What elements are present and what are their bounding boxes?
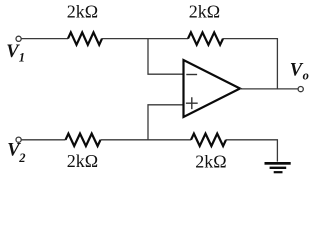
resistor R1 (2k ohm, top left) xyxy=(68,32,102,44)
op-amp inverting input minus sign xyxy=(186,74,197,76)
svg-text:2: 2 xyxy=(18,151,25,165)
resistor R3 (2k ohm, bottom left) xyxy=(66,134,101,146)
resistor R4 (2k ohm, bottom right) xyxy=(191,134,226,146)
svg-text:o: o xyxy=(303,69,309,83)
svg-text:2kΩ: 2kΩ xyxy=(67,151,98,171)
wire R2 to feedback corner, down to output node xyxy=(223,39,277,89)
svg-text:2kΩ: 2kΩ xyxy=(189,2,220,22)
wire V2 to R3 xyxy=(21,139,65,141)
resistor R2 (2k ohm, feedback, top right) xyxy=(188,32,223,44)
terminal V2 (open circle) xyxy=(16,137,21,142)
wire R4 to ground corner xyxy=(226,140,277,162)
svg-text:2kΩ: 2kΩ xyxy=(67,2,98,22)
node B: wire from bottom wire up to non-inverting input xyxy=(148,105,184,140)
wire V1 to R1 xyxy=(21,38,68,40)
terminal Vo (open circle) xyxy=(298,87,303,92)
wire R1 to R2 (node A runs under it) xyxy=(102,38,188,40)
output wire from op-amp to terminal xyxy=(240,88,298,90)
svg-text:2kΩ: 2kΩ xyxy=(195,151,226,171)
op-amp non-inverting input plus sign xyxy=(186,97,198,109)
node A: wire from top wire down to inverting input xyxy=(148,39,184,75)
svg-text:1: 1 xyxy=(19,51,25,65)
terminal V1 (open circle) xyxy=(16,36,21,41)
op-amp U1 (triangle) xyxy=(184,60,241,117)
ground symbol xyxy=(265,162,291,173)
wire R3 to R4 (node B runs under it) xyxy=(101,139,192,141)
